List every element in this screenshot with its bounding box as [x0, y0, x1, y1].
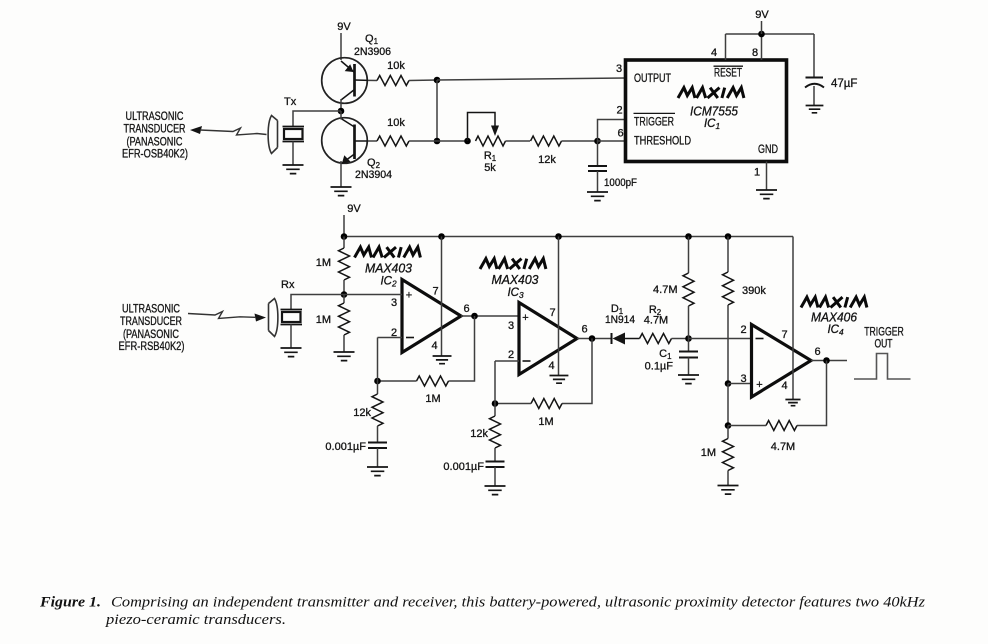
node IC4 output [823, 357, 830, 364]
wire 10k to node3 [409, 79, 437, 82]
svg-text:Figure 1.: Figure 1. [39, 595, 101, 611]
svg-text:2: 2 [508, 349, 514, 361]
svg-text:4.7M: 4.7M [653, 284, 677, 296]
resistor 1M bias upper [343, 237, 345, 249]
svg-text:6: 6 [463, 303, 469, 315]
node Q2 row [434, 138, 441, 145]
svg-text:1M: 1M [701, 447, 716, 459]
transistor Q1 [322, 58, 368, 104]
ground Tx [283, 165, 304, 174]
svg-text:10k: 10k [387, 117, 405, 129]
svg-text:Comprising an independent tran: Comprising an independent transmitter an… [111, 595, 926, 611]
svg-text:1M: 1M [425, 393, 440, 405]
ground 0.001uF IC3 [485, 486, 506, 495]
node output row [434, 77, 441, 84]
wire pin4 up [725, 34, 727, 60]
wire IC3 pin2 [495, 360, 519, 362]
sound wave arrow Rx [255, 314, 267, 322]
svg-text:7: 7 [549, 307, 555, 319]
wire 9V stub [761, 21, 763, 34]
wire R1 to 12k [506, 140, 531, 142]
svg-text:MAX406: MAX406 [811, 311, 857, 325]
wire Q2 collector up [340, 111, 342, 120]
capacitor 0.001uF IC2 [368, 443, 387, 449]
wire R2 to node [672, 338, 689, 340]
node IC2 output [471, 313, 478, 320]
wire Q1 base lead [368, 79, 377, 81]
node threshold [594, 138, 601, 145]
capacitor 0.001uF IC3 [486, 462, 505, 468]
wire Rx to IC2 plus [344, 294, 402, 296]
node IC3 output [589, 335, 596, 342]
svg-text:47µF: 47µF [831, 78, 857, 90]
svg-text:7: 7 [781, 329, 787, 341]
svg-text:2: 2 [616, 105, 622, 117]
svg-text:(PANASONIC: (PANASONIC [123, 329, 179, 341]
ground Rx [281, 348, 302, 357]
wire node to IC1 pin3 [437, 78, 626, 80]
svg-text:TRIGGER: TRIGGER [864, 327, 904, 339]
wire 10k to node [409, 140, 437, 142]
wire IC3 pin7 supply [558, 237, 560, 376]
capacitor 47uF [813, 34, 815, 77]
svg-text:5k: 5k [484, 162, 496, 174]
wire node to 1000pF [597, 141, 599, 166]
wire IC2 feedback down [449, 316, 475, 381]
node Rx [341, 291, 348, 298]
svg-text:9V: 9V [755, 9, 769, 21]
transistor Q2 [322, 118, 368, 164]
wire 1M to fb node IC3 [495, 403, 531, 405]
svg-text:9V: 9V [347, 203, 361, 215]
svg-text:2N3904: 2N3904 [355, 169, 392, 181]
ground Q2 [331, 187, 352, 196]
svg-text:TRANSDUCER: TRANSDUCER [124, 124, 186, 136]
wire fb node to pin2 IC2 [377, 338, 379, 382]
svg-text:(PANASONIC: (PANASONIC [127, 137, 183, 149]
node R2 C1 [685, 335, 692, 342]
resistor 4.7M vertical [688, 237, 690, 274]
ground IC1 [756, 190, 777, 199]
op-amp U3 MAX403 [519, 303, 577, 375]
wire IC2 output [461, 315, 519, 317]
ground 1M IC4 [718, 486, 739, 495]
node feedback IC2 [374, 378, 381, 385]
resistor 12k IC3 [494, 404, 496, 417]
svg-text:EFR-RSB40K2): EFR-RSB40K2) [119, 341, 185, 353]
svg-text:6: 6 [814, 346, 820, 358]
wire IC4 feedback [797, 361, 827, 426]
svg-text:7: 7 [432, 286, 438, 298]
svg-text:1: 1 [754, 167, 760, 179]
resistor 12k timer [531, 136, 562, 146]
wire 1M to fb node IC2 [378, 380, 417, 382]
svg-text:TRIGGER: TRIGGER [634, 117, 674, 129]
wire 9V to Q1 emitter [340, 33, 342, 60]
wire Rx to transducer [291, 295, 344, 310]
wire IC4 output [811, 360, 847, 362]
transducer Tx crystal [283, 127, 305, 142]
resistor 4.7M feedback [766, 421, 797, 431]
wire node to IC4 pin3 [728, 383, 752, 385]
wire 1000pF to ground [597, 171, 599, 192]
node bus IC3 [555, 233, 562, 240]
svg-text:6: 6 [617, 128, 623, 140]
ground 1000pF [587, 192, 608, 201]
wire IC2 pin2 [378, 337, 403, 339]
node bus IC2 [438, 233, 445, 240]
svg-text:3: 3 [616, 63, 622, 75]
svg-text:Rx: Rx [281, 279, 295, 291]
resistor 12k IC2 [377, 381, 379, 394]
svg-text:0.001µF: 0.001µF [325, 441, 366, 453]
svg-text:4: 4 [711, 47, 717, 59]
svg-text:MAX403: MAX403 [492, 273, 539, 287]
logo MAXIM IC1 [678, 88, 744, 98]
wire Tx node to transducer [293, 111, 341, 126]
wire node3 vertical [436, 80, 438, 141]
svg-text:+: + [522, 312, 528, 324]
resistor R2 [640, 334, 672, 344]
svg-text:3: 3 [391, 297, 397, 309]
svg-text:4: 4 [548, 360, 554, 372]
op-amp U4 MAX406 [752, 325, 812, 398]
wire IC3 feedback down [562, 339, 592, 404]
svg-text:1M: 1M [316, 257, 331, 269]
svg-text:ULTRASONIC: ULTRASONIC [122, 304, 180, 316]
node IC4 pin3 [725, 380, 732, 387]
node R1 left [464, 138, 471, 145]
svg-text:+: + [756, 379, 762, 391]
svg-text:1M: 1M [538, 416, 553, 428]
svg-text:390k: 390k [742, 285, 766, 297]
node Tx junction [338, 108, 345, 115]
svg-text:4: 4 [781, 380, 787, 392]
svg-text:0.1µF: 0.1µF [645, 361, 674, 373]
svg-text:2N3906: 2N3906 [354, 46, 391, 58]
logo MAXIM IC4 [801, 297, 867, 307]
svg-text:6: 6 [581, 324, 587, 336]
svg-text:4.7M: 4.7M [644, 315, 668, 327]
resistor 1M bias lower [343, 295, 345, 304]
svg-text:3: 3 [740, 373, 746, 385]
svg-text:8: 8 [752, 47, 758, 59]
svg-text:+: + [406, 290, 412, 302]
ground 47uF [806, 106, 824, 113]
wire 47uF to ground [813, 86, 815, 105]
svg-text:9V: 9V [337, 21, 351, 33]
wire Q2 emitter down [340, 161, 342, 187]
svg-text:OUT: OUT [875, 339, 893, 351]
node 1M 4.7M junction [725, 422, 732, 429]
op-amp U2 MAX403 [402, 280, 461, 353]
resistor 1M feedback IC2 [417, 376, 449, 386]
ground 0.001uF IC2 [367, 467, 388, 476]
sound wave arrow Tx [190, 126, 202, 134]
wire Tx crystal to ground [292, 142, 294, 166]
ground C1 [678, 375, 699, 384]
capacitor C1 [688, 339, 690, 352]
wire node to IC4 pin2 [689, 338, 752, 340]
svg-text:Tx: Tx [284, 96, 297, 108]
wire IC1 pin1 to ground [766, 162, 768, 191]
label RESET overline [714, 65, 744, 67]
svg-text:1000pF: 1000pF [604, 177, 637, 189]
capacitor 1000pF [588, 166, 607, 171]
logo MAXIM IC2 [355, 247, 421, 257]
potentiometer R1 [476, 136, 506, 146]
wire 4.7M fb to node [728, 425, 766, 427]
svg-text:1M: 1M [316, 314, 331, 326]
svg-text:10k: 10k [387, 60, 405, 72]
wire IC2 pin7 supply [441, 237, 443, 357]
svg-text:THRESHOLD: THRESHOLD [634, 136, 691, 148]
resistor 1M feedback IC3 [531, 399, 562, 409]
svg-text:RESET: RESET [714, 68, 742, 80]
wire IC3 output [577, 338, 611, 340]
label TRIGGER overline [634, 112, 676, 114]
svg-text:12k: 12k [538, 154, 556, 166]
IC U1 ICM7555 box [626, 60, 787, 162]
svg-text:ICM7555: ICM7555 [690, 104, 739, 119]
node 9V rail [758, 31, 765, 38]
wire 9V bus [344, 236, 793, 238]
svg-text:12k: 12k [470, 428, 488, 440]
wire pin8 up [761, 34, 763, 60]
svg-text:3: 3 [508, 320, 514, 332]
svg-text:TRANSDUCER: TRANSDUCER [120, 316, 182, 328]
wire top rail [726, 33, 815, 35]
wire node to IC1 pin6 [598, 140, 626, 142]
wire 9V to bus [343, 215, 345, 237]
diode D1 [611, 333, 613, 344]
svg-text:4.7M: 4.7M [771, 441, 795, 453]
wire 12k to node6 [562, 140, 598, 142]
resistor 10k lower [377, 136, 409, 146]
wire Q1 collector to Tx node [340, 99, 342, 111]
wire node to IC1 pin2 [598, 120, 626, 142]
transducer Rx crystal [281, 310, 303, 325]
ground IC3 [550, 376, 569, 384]
svg-text:EFR-OSB40K2): EFR-OSB40K2) [122, 149, 188, 161]
wire fb node to pin2 IC3 [494, 361, 496, 404]
wire pin3 node down [727, 384, 729, 426]
wire Rx crystal to ground [290, 325, 292, 349]
resistor 10k upper [377, 76, 409, 86]
svg-text:ULTRASONIC: ULTRASONIC [126, 111, 184, 123]
svg-text:piezo-ceramic transducers.: piezo-ceramic transducers. [105, 612, 286, 628]
svg-text:1N914: 1N914 [605, 314, 635, 326]
wire cap to ground IC2 [377, 448, 379, 467]
resistor 1M IC4 [727, 426, 729, 439]
wire node to R1 [437, 140, 468, 142]
trigger pulse waveform [854, 354, 911, 380]
wire cap to ground IC3 [494, 467, 496, 486]
transducer Tx cone [268, 116, 277, 154]
svg-text:GND: GND [758, 144, 778, 156]
svg-text:12k: 12k [353, 407, 371, 419]
node bus 4.7M [685, 233, 692, 240]
node bus 390k [725, 233, 732, 240]
svg-text:2: 2 [740, 324, 746, 336]
wire IC4 pin7 supply [792, 237, 794, 400]
svg-text:OUTPUT: OUTPUT [634, 73, 671, 85]
svg-text:MAX403: MAX403 [365, 262, 412, 276]
svg-text:0.001µF: 0.001µF [443, 461, 484, 473]
ground IC2 [433, 356, 452, 364]
transducer Rx cone [269, 299, 278, 337]
ground 1M lower [334, 352, 355, 361]
pot R1 wiper arrow [468, 113, 496, 142]
node feedback IC3 [492, 400, 499, 407]
wire Q2 base lead [368, 140, 377, 142]
node bus Rx [341, 233, 348, 240]
resistor 390k [727, 237, 729, 273]
svg-text:4: 4 [431, 340, 437, 352]
logo MAXIM IC3 [480, 259, 546, 269]
ground IC4 [785, 400, 800, 406]
